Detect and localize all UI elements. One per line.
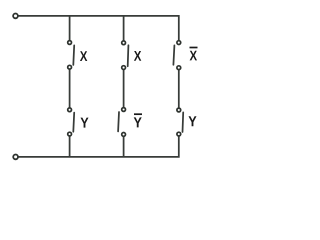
switch blade Ybar branch2 xyxy=(117,112,120,131)
switch blade X branch1 xyxy=(72,45,75,65)
switch blade Xbar branch3 xyxy=(173,45,174,64)
wire branch1 middle xyxy=(69,68,71,110)
terminal top-left xyxy=(13,14,18,19)
wire bottom rail xyxy=(18,134,179,157)
overbar Ybar branch2 xyxy=(134,113,142,115)
switch contact branch3 bottom lower xyxy=(177,132,181,136)
switch blade Y branch1 xyxy=(72,113,75,132)
label Y branch1 xyxy=(81,118,89,128)
label Ybar branch2 xyxy=(134,117,142,127)
switch contact branch2 top upper xyxy=(122,41,126,45)
switch contact branch2 bottom upper xyxy=(122,108,126,112)
label Xbar branch3 xyxy=(190,51,197,61)
switch contact branch1 bottom lower xyxy=(68,132,72,136)
label Y branch3 xyxy=(189,116,197,126)
switch blade X branch2 xyxy=(127,45,130,66)
overbar Xbar branch3 xyxy=(190,47,198,49)
switch contact branch1 top lower xyxy=(68,65,72,69)
label X branch1 xyxy=(80,51,87,61)
switch contact branch1 bottom upper xyxy=(68,108,72,112)
terminal bottom-left xyxy=(13,155,18,160)
wire branch1 bottom xyxy=(69,134,71,157)
switch contact branch3 top lower xyxy=(177,66,181,70)
wire branch2 middle xyxy=(123,68,125,110)
wire branch1 top xyxy=(69,16,71,43)
switch contact branch1 top upper xyxy=(68,41,72,45)
wire branch2 top xyxy=(123,16,125,43)
switch contact branch2 top lower xyxy=(122,66,126,70)
label X branch2 xyxy=(134,51,141,61)
switch contact branch3 bottom upper xyxy=(177,108,181,112)
wire branch2 bottom xyxy=(123,134,125,157)
switch contact branch3 top upper xyxy=(177,41,181,45)
wire top rail xyxy=(18,16,179,43)
switch blade Y branch3 xyxy=(182,112,185,132)
wire branch3 middle xyxy=(178,68,180,110)
switch contact branch2 bottom lower xyxy=(122,133,126,137)
